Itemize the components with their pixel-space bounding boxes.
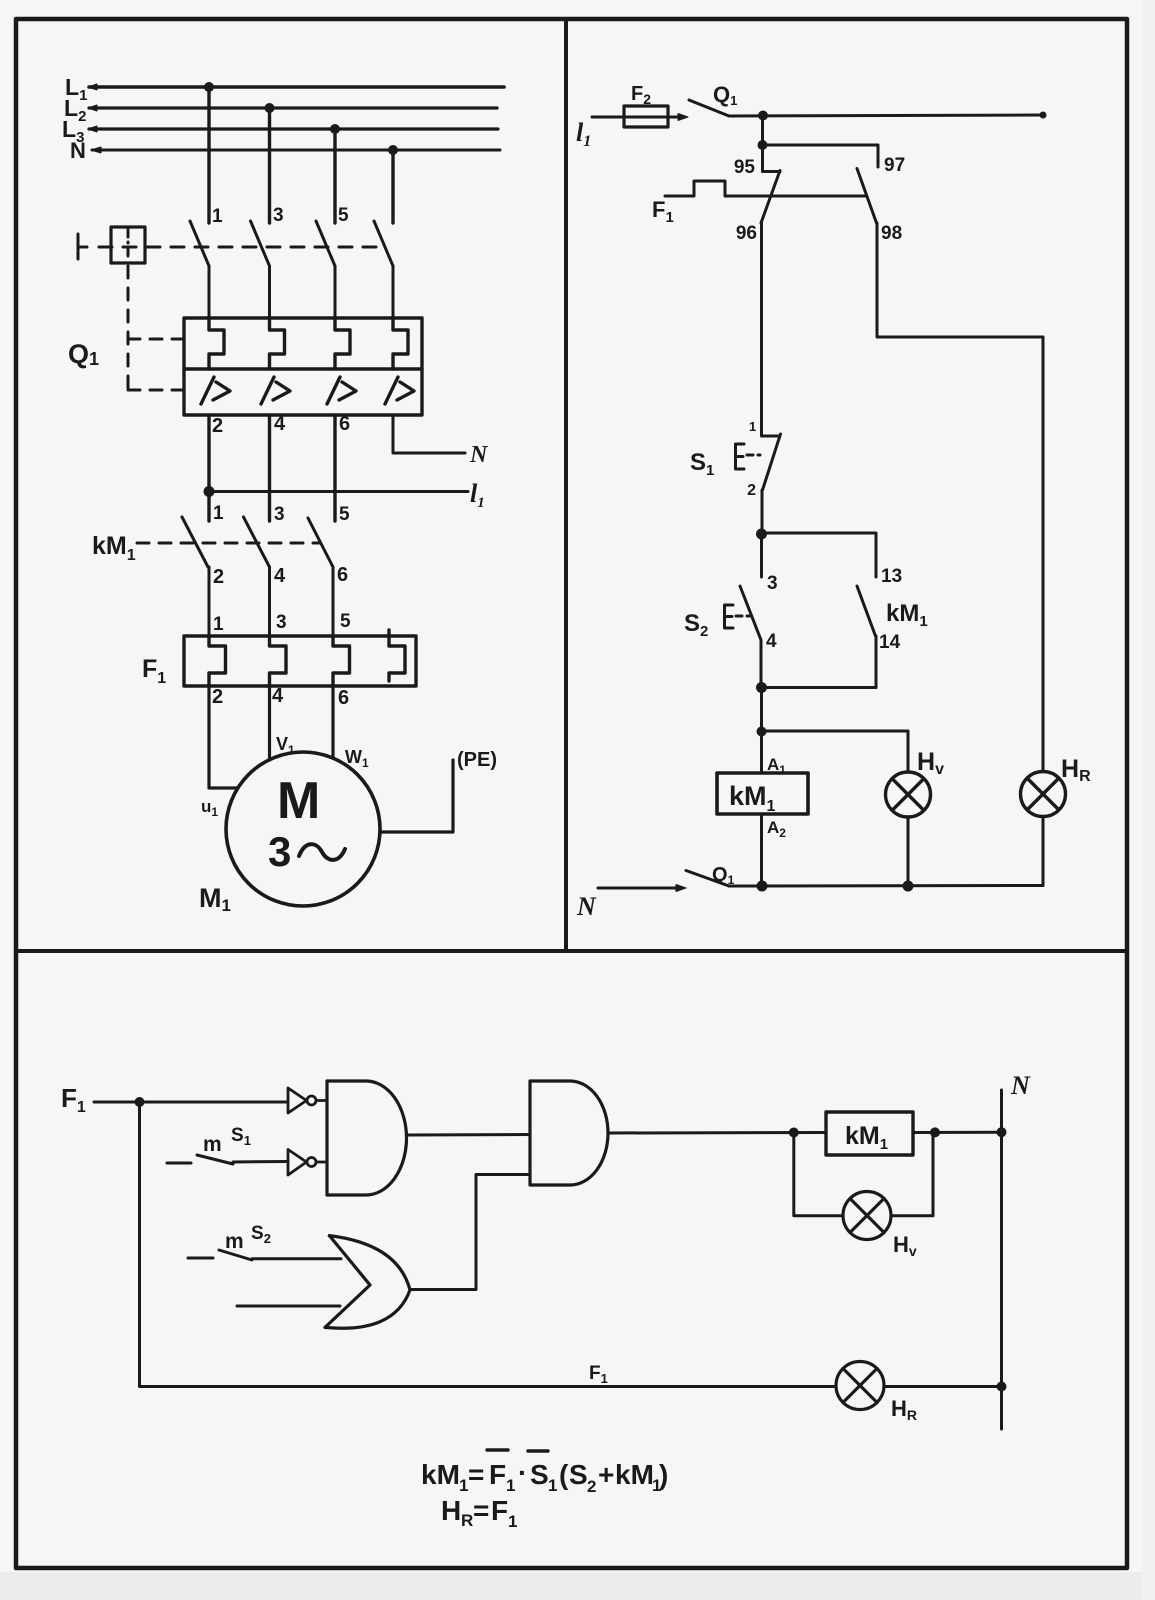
equation line 1	[421, 1450, 668, 1496]
wire S2 down to junction	[760, 643, 763, 688]
svg-text:5: 5	[340, 611, 351, 632]
node Hv on N rail	[903, 881, 914, 892]
svg-text:6: 6	[338, 687, 349, 709]
relay F1 trip element	[652, 181, 866, 226]
node F1 junction	[135, 1097, 145, 1107]
wire Hv parallel branch	[794, 1133, 843, 1216]
motor M1 circle	[226, 752, 380, 906]
inverter 2	[288, 1150, 327, 1176]
svg-text:F: F	[489, 1459, 506, 1490]
fuse F2	[624, 83, 668, 127]
svg-text:6: 6	[339, 413, 350, 435]
wire 96 down to S1	[760, 223, 763, 430]
thermal relay F1 box	[184, 636, 416, 686]
svg-text:3: 3	[276, 612, 287, 633]
Q1 thermal element pole 2	[270, 318, 285, 369]
divider horizontal	[16, 949, 1127, 953]
relay F1 NC contact 95-96	[761, 145, 780, 223]
svg-text:N: N	[469, 442, 489, 468]
Q1 trip dashed link to box lower	[128, 389, 183, 392]
breaker Q1 pole 2 blade, pin 3	[251, 205, 284, 318]
motor 3~ text	[268, 828, 345, 875]
wire branch to 97	[763, 145, 879, 167]
wire N rail lead	[598, 887, 680, 890]
wire S1 to junction	[761, 490, 764, 534]
svg-text:13: 13	[881, 566, 902, 587]
svg-text:5: 5	[338, 205, 349, 226]
svg-text:·: ·	[518, 1457, 527, 1488]
svg-text:96: 96	[736, 223, 757, 244]
button S2 actuator E symbol	[725, 605, 751, 628]
svg-text:1: 1	[749, 419, 756, 434]
svg-text:S: S	[530, 1459, 549, 1490]
svg-text:3: 3	[767, 573, 778, 594]
wire N drop	[391, 150, 394, 223]
svg-text:1: 1	[212, 206, 223, 227]
wire top rail	[729, 115, 1042, 116]
wire pole2 below breaker	[268, 415, 271, 521]
svg-text:98: 98	[881, 223, 902, 244]
wire AND2 output	[608, 1131, 826, 1135]
Q1 thermal element pole 4	[393, 318, 408, 369]
svg-text:1: 1	[213, 503, 224, 524]
wire junction to S2 pin 3	[760, 534, 763, 577]
node junction above S2	[756, 529, 767, 540]
breaker Q1 aux contact blade	[689, 82, 737, 116]
Q1 trip dashed link to box upper	[128, 338, 183, 341]
bus L2	[64, 95, 497, 125]
wire junction down	[760, 688, 763, 732]
svg-text:1: 1	[506, 1476, 515, 1495]
Q1 magnetic trip mark pole 1	[201, 377, 230, 404]
wire to motor w1	[331, 686, 334, 758]
wire arrowhead after fuse	[678, 114, 688, 121]
bus N	[70, 138, 500, 163]
Q1 magnetic trip mark pole 2	[261, 377, 290, 404]
svg-text:R: R	[461, 1511, 473, 1530]
wire F1 input	[94, 1101, 288, 1104]
svg-text:1: 1	[548, 1476, 557, 1495]
node top rail end	[1040, 112, 1047, 119]
svg-text:4: 4	[274, 565, 286, 587]
contactor KM1 pole 3 blade	[308, 518, 333, 636]
lamp HR	[1021, 772, 1066, 817]
node junction 95/97	[758, 140, 768, 150]
contactor KM1 pole 1 blade	[182, 517, 209, 636]
bus L3	[62, 116, 498, 146]
svg-text:M: M	[277, 772, 320, 830]
node junction top	[758, 111, 768, 121]
wire pole1 below breaker	[207, 415, 210, 521]
wire pole3 below breaker	[333, 415, 336, 521]
svg-text:=: =	[468, 1459, 484, 1490]
svg-text:(PE): (PE)	[457, 749, 497, 771]
node on N line	[997, 1127, 1007, 1137]
svg-text:H: H	[441, 1495, 461, 1526]
svg-text:S: S	[569, 1459, 588, 1490]
N vertical line	[1000, 1090, 1003, 1429]
svg-text:1: 1	[213, 614, 224, 635]
wire L1 branch to control circuit	[209, 479, 485, 511]
breaker Q1 box	[184, 318, 422, 415]
svg-text:2: 2	[213, 566, 224, 588]
F1 thermal element pole 1	[209, 636, 226, 686]
relay F1 NO contact 97-98	[857, 169, 877, 224]
svg-text:4: 4	[274, 413, 286, 435]
wire N rail	[729, 884, 1043, 888]
svg-text:3: 3	[273, 205, 284, 226]
button S1 NC contact	[762, 430, 781, 490]
F1 thermal element pole 3	[333, 636, 350, 686]
svg-text:+: +	[598, 1459, 614, 1490]
svg-text:=: =	[473, 1495, 489, 1526]
Q1 magnetic trip mark pole 3	[327, 377, 356, 404]
OR gate	[325, 1236, 410, 1329]
svg-text:2: 2	[212, 686, 223, 708]
Q1 manual actuator symbol	[78, 227, 145, 263]
wire HR to N	[884, 1385, 1002, 1388]
contactor KM1 pole 2 blade	[244, 517, 270, 636]
equation line 2	[441, 1495, 517, 1531]
wire branch to KM1 aux 13	[762, 533, 877, 577]
svg-text:N: N	[70, 138, 86, 163]
svg-text:1: 1	[508, 1512, 517, 1531]
wire junction to coil A1	[760, 732, 763, 774]
Q1 magnetic trip mark pole 4	[385, 377, 414, 404]
breaker Q1 pole 4 blade	[374, 221, 393, 318]
breaker Q1 pole 3 blade, pin 5	[316, 205, 349, 318]
wire N' branch	[393, 415, 489, 468]
node before KM1 box	[789, 1128, 799, 1138]
svg-text:N: N	[1010, 1071, 1031, 1100]
node L2 tap	[265, 103, 275, 113]
node coil on N rail	[757, 881, 768, 892]
contactor coil KM1	[717, 773, 808, 815]
svg-text:F: F	[491, 1495, 508, 1526]
wire Hv to junction	[891, 1133, 933, 1216]
wire F1 down branch	[140, 1102, 837, 1387]
node junction Hv branch	[757, 727, 767, 737]
wire into fuse	[592, 116, 684, 119]
divider vertical	[564, 19, 568, 951]
Q1 thermal element pole 1	[209, 318, 224, 369]
wire L3 drop	[333, 129, 336, 223]
inverter 1	[288, 1088, 327, 1113]
Q1 trip dashed link vertical	[127, 266, 130, 390]
contactor KM1 aux contact 13-14	[857, 586, 876, 636]
svg-text:4: 4	[272, 685, 284, 707]
AND gate 2	[530, 1081, 608, 1185]
node L3 tap	[330, 124, 340, 134]
node after KM1 box	[930, 1127, 940, 1137]
svg-text:2: 2	[587, 1477, 596, 1496]
wire L1 drop	[207, 87, 210, 223]
button S2 NO contact	[740, 586, 761, 643]
svg-text:3: 3	[274, 504, 285, 525]
button S2 logic input	[188, 1223, 341, 1260]
svg-text:m: m	[225, 1230, 244, 1253]
svg-text:4: 4	[766, 631, 777, 652]
N rail arrowhead	[676, 885, 686, 892]
bus L1	[65, 74, 504, 104]
svg-text:6: 6	[337, 564, 348, 586]
AND gate 1	[327, 1081, 407, 1195]
lamp Hv logic	[843, 1192, 891, 1240]
svg-text:14: 14	[879, 632, 901, 653]
wire HR to N rail	[1042, 817, 1045, 886]
wire to motor u1	[209, 686, 237, 788]
contactor KM1 dashed actuator line	[137, 542, 320, 545]
svg-text:): )	[659, 1459, 668, 1490]
wire OR lower input KM1 feedback	[237, 1305, 340, 1308]
node L1 tap	[204, 82, 214, 92]
node junction L1 to control	[204, 486, 215, 497]
wire across from aux to main	[762, 686, 877, 689]
node HR on N	[997, 1382, 1007, 1392]
wire coil to N rail	[760, 814, 763, 886]
Q1 thermal element pole 3	[335, 318, 350, 369]
wire 98 down and across right	[877, 223, 1043, 771]
wire down to F1 contact	[761, 116, 764, 146]
svg-text:95: 95	[734, 157, 756, 178]
svg-text:3: 3	[268, 828, 291, 875]
svg-text:kM: kM	[615, 1459, 654, 1490]
wire branch to Hv lamp	[762, 731, 909, 772]
node junction below S2	[756, 682, 767, 693]
svg-text:(: (	[559, 1459, 569, 1490]
svg-text:5: 5	[339, 504, 350, 525]
lamp HR logic	[836, 1362, 884, 1410]
wire Hv to N rail	[907, 817, 910, 886]
lamp Hv	[886, 772, 931, 817]
svg-text:m: m	[203, 1133, 222, 1156]
breaker Q1 N-pole blade	[686, 864, 735, 887]
wire KM1 box to N	[913, 1131, 1002, 1134]
button S1 logic input	[167, 1125, 288, 1164]
button S1 actuator E symbol	[736, 444, 761, 469]
wire AND1 output	[407, 1133, 530, 1137]
svg-text:kM: kM	[421, 1459, 460, 1490]
wire to motor v1	[268, 686, 271, 760]
svg-text:2: 2	[212, 415, 223, 437]
Q1 actuator dashed link to blades	[99, 246, 378, 249]
node N tap	[388, 145, 398, 155]
logic KM1 box	[826, 1112, 913, 1155]
breaker Q1 pole 1 blade, pin 1	[190, 206, 223, 318]
F1 thermal element pole 2	[270, 636, 287, 686]
svg-text:97: 97	[884, 155, 905, 176]
wire L2 drop	[268, 108, 271, 223]
wire PE	[380, 760, 453, 832]
svg-text:N: N	[576, 892, 597, 921]
wire OR output to AND2	[410, 1175, 530, 1290]
wire 14 down	[875, 636, 878, 688]
F1 thermal element pole 4 spare	[389, 630, 405, 681]
svg-text:2: 2	[747, 482, 756, 499]
